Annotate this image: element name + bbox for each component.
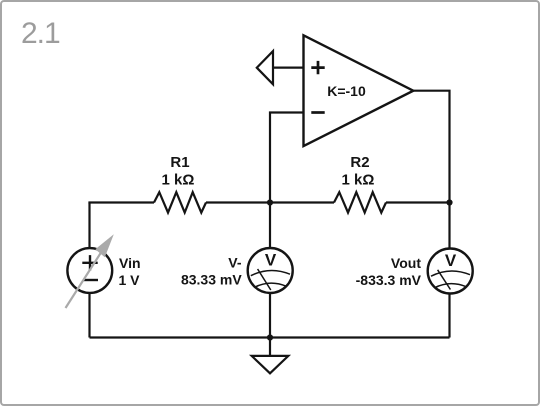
svg-text:Vout: Vout [391, 255, 421, 271]
svg-text:V-: V- [228, 255, 242, 271]
svg-text:V: V [265, 251, 277, 270]
wire: feedback from node V- up to inverting input [270, 113, 304, 203]
node Vout junction dot [446, 199, 452, 205]
op-amp U1 [304, 35, 414, 146]
svg-text:R2: R2 [350, 154, 369, 171]
wire: bottom ground rail [90, 336, 450, 338]
wire: node V- down to voltmeter V- [269, 203, 271, 249]
wire: op-amp output to right vertical [413, 91, 449, 203]
resistor R1 [154, 192, 206, 212]
wire: left vertical from Vin bottom to ground rail [88, 293, 90, 338]
svg-text:V: V [445, 251, 457, 270]
resistor R2 [334, 192, 386, 212]
node ground-rail junction dot [267, 334, 273, 340]
voltmeter Vout [428, 249, 473, 294]
svg-text:-833.3 mV: -833.3 mV [356, 272, 422, 288]
svg-text:1 V: 1 V [119, 272, 141, 288]
svg-text:Vin: Vin [119, 255, 141, 271]
svg-text:1 kΩ: 1 kΩ [342, 172, 375, 189]
svg-text:R1: R1 [170, 154, 189, 171]
svg-text:2.1: 2.1 [21, 17, 60, 50]
wire: output node down to voltmeter Vout [448, 203, 450, 249]
svg-text:1 kΩ: 1 kΩ [162, 172, 195, 189]
ground symbol at non-inverting input (left-pointing triangle) [257, 51, 273, 84]
source Vin [67, 248, 112, 293]
ground [252, 338, 289, 374]
wire: R2 right lead to output node [386, 201, 450, 203]
wire: between R1 and R2 through node V- [206, 201, 334, 203]
svg-text:83.33 mV: 83.33 mV [181, 272, 242, 288]
variable-source arrow (gray) [66, 234, 114, 308]
wire: left vertical from R1 to Vin top [88, 203, 90, 249]
wire: non-inverting input stub [273, 66, 304, 68]
node V- junction dot [267, 199, 273, 205]
voltmeter V- [248, 248, 293, 293]
wire: voltmeter V- bottom to ground rail [269, 293, 271, 338]
wire: R1 left lead [88, 201, 154, 203]
svg-text:K=-10: K=-10 [327, 83, 366, 99]
wire: voltmeter Vout bottom to ground rail [448, 294, 450, 338]
